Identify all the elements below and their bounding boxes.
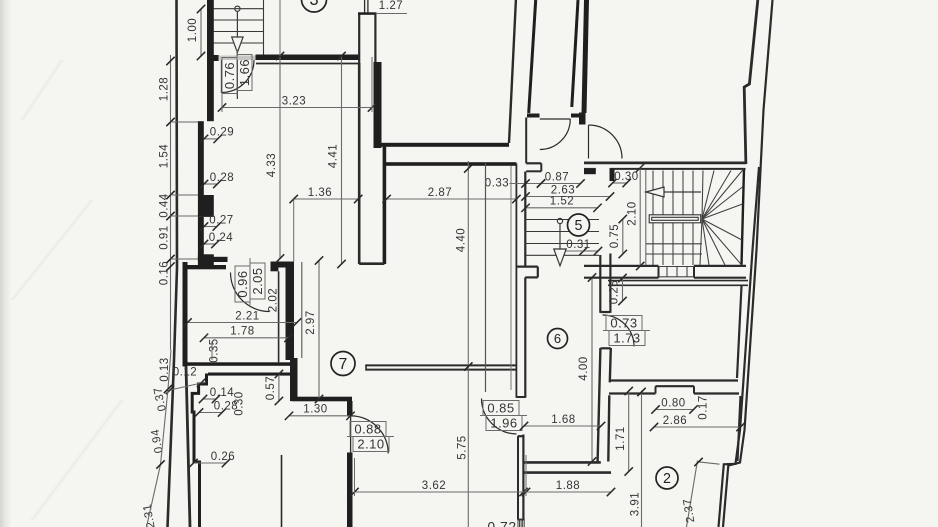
wall top-right room right <box>744 0 758 164</box>
wall hall door jamb right T <box>571 114 586 118</box>
svg-text:0.44: 0.44 <box>159 193 171 217</box>
svg-text:1.88: 1.88 <box>556 480 580 492</box>
svg-text:0.28: 0.28 <box>210 172 234 184</box>
dimension 0.31 <box>566 239 602 255</box>
wall B (center room left wall) <box>374 62 382 148</box>
svg-text:0.35: 0.35 <box>209 338 221 362</box>
dimension 2.86 <box>650 415 745 431</box>
svg-text:4.41: 4.41 <box>328 144 340 168</box>
wall room2 right <box>738 396 741 461</box>
svg-text:1.96: 1.96 <box>490 416 517 431</box>
wall center room bottom <box>374 143 510 147</box>
svg-text:3.23: 3.23 <box>282 95 306 107</box>
stair winder fan lines <box>646 169 744 266</box>
svg-text:0.80: 0.80 <box>661 397 685 409</box>
door 0.96 arc <box>231 273 270 312</box>
dimension 0.26 <box>189 451 235 467</box>
wall L horizontal below room7 <box>292 397 353 402</box>
dimension 0.80 <box>651 397 697 413</box>
dimension 2.10 <box>626 164 644 271</box>
door 0.73 arc <box>603 315 635 347</box>
dimension 1.00 <box>187 5 205 60</box>
svg-text:2.10: 2.10 <box>357 437 384 452</box>
dimension 3.62 <box>350 480 530 496</box>
svg-text:1.71: 1.71 <box>615 426 627 450</box>
wall center-left right face line <box>301 262 303 358</box>
svg-text:1.66: 1.66 <box>237 59 252 86</box>
door 0.76 sill <box>219 56 256 61</box>
svg-text:6: 6 <box>554 331 561 346</box>
svg-text:1.68: 1.68 <box>551 414 575 426</box>
svg-text:0.96: 0.96 <box>235 270 250 297</box>
svg-text:5.75: 5.75 <box>457 435 469 459</box>
svg-text:0.88: 0.88 <box>354 422 381 437</box>
svg-text:2.86: 2.86 <box>663 415 687 427</box>
wall hall door jamb left <box>527 114 540 118</box>
svg-text:0.76: 0.76 <box>222 62 237 89</box>
wall shaft bottom close <box>359 262 384 265</box>
svg-text:1.27: 1.27 <box>379 0 403 12</box>
lower-left chain line <box>147 350 172 527</box>
wall small room left <box>183 262 188 367</box>
wall small room top left <box>183 265 226 269</box>
dimension 0.28 <box>200 172 234 188</box>
wall right room bottom line <box>609 379 738 381</box>
dimension 1.78 <box>200 326 293 342</box>
svg-text:2.21: 2.21 <box>235 310 259 322</box>
stair room5 walk line <box>554 218 566 265</box>
dimension 3.91 <box>641 391 643 527</box>
svg-text:1.78: 1.78 <box>230 326 254 338</box>
wall room6 bottom outline <box>524 461 601 464</box>
dimension 1.30 <box>285 404 355 420</box>
dimension 2.21 <box>183 310 301 326</box>
svg-text:3: 3 <box>309 0 318 9</box>
svg-text:2.63: 2.63 <box>551 184 575 196</box>
wall under-stair room top lines <box>608 280 748 282</box>
wall left exterior line <box>168 0 178 527</box>
svg-text:2.10: 2.10 <box>626 201 638 225</box>
svg-text:0.25: 0.25 <box>609 280 621 304</box>
dimension 0.28 <box>195 400 238 416</box>
wall shaft cap below window <box>358 12 377 15</box>
stair winder box left double line <box>645 170 647 265</box>
dimension 1.68 <box>520 414 605 430</box>
door tag 0.73/1.73 <box>603 316 650 346</box>
wall room2 top lines <box>609 392 656 394</box>
extension lines 3.62 <box>354 458 356 496</box>
wall top-right room left <box>584 0 587 113</box>
wall A thin upper <box>358 13 360 63</box>
steps in opening below stair <box>659 267 695 277</box>
svg-text:2: 2 <box>663 471 671 487</box>
wall center room right slanted double <box>509 0 516 143</box>
hatch wall section bottom <box>517 520 524 527</box>
wall hall right slanted upper <box>572 0 578 107</box>
dimension 1.71 <box>615 387 633 476</box>
svg-text:7: 7 <box>339 356 348 373</box>
dimension 3.23 <box>218 95 376 111</box>
svg-text:2.87: 2.87 <box>428 187 452 199</box>
svg-text:0.26: 0.26 <box>211 451 235 463</box>
svg-text:0.29: 0.29 <box>210 127 234 139</box>
wall door jamb top-left <box>212 55 219 61</box>
door hall-left leaf+arc <box>540 118 571 120</box>
door 0.88 leaf+arc <box>350 416 352 454</box>
chain extension lines <box>171 121 199 123</box>
wall small room bottom <box>187 362 291 366</box>
svg-text:0.17: 0.17 <box>698 395 710 419</box>
left dimension chain <box>170 55 172 350</box>
room label 3 <box>302 0 327 12</box>
extension line x511 <box>510 166 512 390</box>
svg-text:0.72: 0.72 <box>487 519 516 527</box>
svg-text:0.87: 0.87 <box>545 171 569 183</box>
dimension 4.00 <box>578 273 596 465</box>
wall room7 bottom long double line <box>366 364 516 366</box>
extension lines 1.36 <box>293 200 295 263</box>
svg-text:0.24: 0.24 <box>209 232 233 244</box>
door hall-right leaf+arc <box>588 125 590 159</box>
dimension 1.88 <box>519 480 615 496</box>
dimension 0.30 <box>608 171 638 187</box>
wall small room top right piece <box>271 262 295 268</box>
wall inner face line below top wall <box>256 63 359 65</box>
svg-text:2.97: 2.97 <box>305 310 317 334</box>
wall left room zigzag <box>198 121 204 195</box>
wall under-stair room right <box>737 286 742 378</box>
wall B thin upper <box>374 13 376 63</box>
dimension 1.36 <box>290 187 363 203</box>
room label 5 <box>568 214 590 236</box>
wall landing bottom right outline <box>694 265 746 267</box>
wall A (left room right wall) line <box>358 63 361 264</box>
wall right exterior inner <box>719 167 760 527</box>
room label 7 <box>331 352 355 376</box>
dimension 0.75 <box>609 215 627 258</box>
window 1.27 lines <box>364 0 366 13</box>
dimension 0.12 <box>166 367 206 395</box>
svg-text:0.12: 0.12 <box>173 367 197 379</box>
stair top-left walk line <box>232 6 243 99</box>
svg-text:1.30: 1.30 <box>303 404 327 416</box>
stair winder handrail <box>649 215 701 223</box>
svg-text:1.28: 1.28 <box>159 77 171 101</box>
extension lines 3.23 <box>221 61 223 112</box>
svg-text:0.31: 0.31 <box>566 239 590 251</box>
wall hall-room6 left face outline <box>515 164 517 398</box>
svg-text:3.62: 3.62 <box>422 480 446 492</box>
door tag 0.76/1.66 <box>222 50 252 97</box>
svg-text:0.16: 0.16 <box>159 261 171 285</box>
wall stub left of landing outline <box>516 266 537 268</box>
svg-text:4.40: 4.40 <box>456 228 468 252</box>
wall thin lower-middle <box>281 455 283 527</box>
wall room6-right outline lower <box>598 348 601 462</box>
svg-text:0.30: 0.30 <box>614 171 638 183</box>
wall landing bottom left outline <box>584 265 659 267</box>
wall left inner face line <box>186 366 190 527</box>
svg-text:1.54: 1.54 <box>159 144 171 168</box>
dimension 1.52 <box>521 196 601 212</box>
dimension 0.14 <box>199 387 234 403</box>
svg-text:0.75: 0.75 <box>609 224 621 248</box>
wall top of left room <box>256 55 361 61</box>
dimension 0.29 <box>200 127 234 143</box>
faint wall line right of room7 <box>485 163 487 392</box>
dimension 0.27 <box>200 214 234 230</box>
svg-text:1.36: 1.36 <box>308 187 332 199</box>
wall shaft right face lower <box>383 147 387 265</box>
wall center-left solid bar <box>286 268 295 361</box>
dimension 2.37 slanted <box>687 461 698 527</box>
wall below door 0.88 <box>347 453 353 527</box>
svg-text:0.85: 0.85 <box>487 401 514 416</box>
wall step left end <box>584 169 596 174</box>
dimension 0.57 <box>265 370 283 405</box>
dimension 2.87 <box>382 187 520 203</box>
svg-text:0.57: 0.57 <box>265 376 277 400</box>
svg-text:2.05: 2.05 <box>250 267 265 294</box>
dimension 4.33 <box>266 52 284 263</box>
svg-text:0.30: 0.30 <box>234 391 246 415</box>
dimension 4.41 <box>328 52 346 268</box>
stair room5 treads <box>526 220 600 256</box>
dimension 0.87 <box>537 171 585 187</box>
wall center-left inner face line <box>278 271 280 362</box>
stair winder treads <box>653 171 693 266</box>
svg-text:2.02: 2.02 <box>268 288 280 312</box>
svg-text:1.73: 1.73 <box>613 331 640 346</box>
wall landing cross vertical outline <box>599 255 601 313</box>
wall left room bottom <box>198 257 228 262</box>
door 0.76 arc <box>222 60 255 93</box>
dimension 0.25 <box>609 274 627 305</box>
door tag 0.85/1.96 <box>480 401 527 431</box>
dimension 0.33 <box>510 183 542 185</box>
svg-text:4.33: 4.33 <box>266 153 278 177</box>
svg-text:1.00: 1.00 <box>187 18 199 42</box>
room label 6 <box>548 329 568 349</box>
stair winder arrow <box>646 187 701 197</box>
door tag 0.96/2.05 <box>235 258 265 305</box>
wall lower-left stepped <box>192 374 206 527</box>
svg-text:0.14: 0.14 <box>210 387 234 399</box>
svg-text:0.33: 0.33 <box>485 178 509 190</box>
wall stair-3 left <box>207 0 214 121</box>
wall room7 top <box>384 162 516 166</box>
svg-text:3.91: 3.91 <box>630 492 642 516</box>
wall lower-left room top <box>208 373 291 376</box>
dimension 4.40/5.75 shared line <box>467 161 469 527</box>
door tag 0.88/2.10 <box>347 422 394 452</box>
svg-text:5: 5 <box>575 218 583 234</box>
svg-text:0.27: 0.27 <box>209 214 233 226</box>
dimension 2.63 <box>521 184 614 200</box>
room label 2 <box>656 467 678 489</box>
wall head outline near hall door <box>525 118 527 164</box>
wall top-right room bottom outline <box>584 161 746 164</box>
wall right exterior outer <box>723 0 773 527</box>
svg-text:1.52: 1.52 <box>550 196 574 208</box>
stair top-left treads <box>214 0 264 55</box>
svg-text:0.73: 0.73 <box>610 316 637 331</box>
wall below door 0.85 outline <box>518 435 524 437</box>
dimension 0.24 <box>200 232 233 248</box>
wall jamb stub at 0.30 opening <box>610 169 615 181</box>
door 0.85 arc <box>482 399 517 435</box>
svg-text:4.00: 4.00 <box>578 356 590 380</box>
stair winder right wall <box>742 168 745 264</box>
svg-text:0.91: 0.91 <box>159 225 171 249</box>
dimension 2.97 <box>305 256 323 403</box>
wall L jamb vertical <box>347 401 353 417</box>
